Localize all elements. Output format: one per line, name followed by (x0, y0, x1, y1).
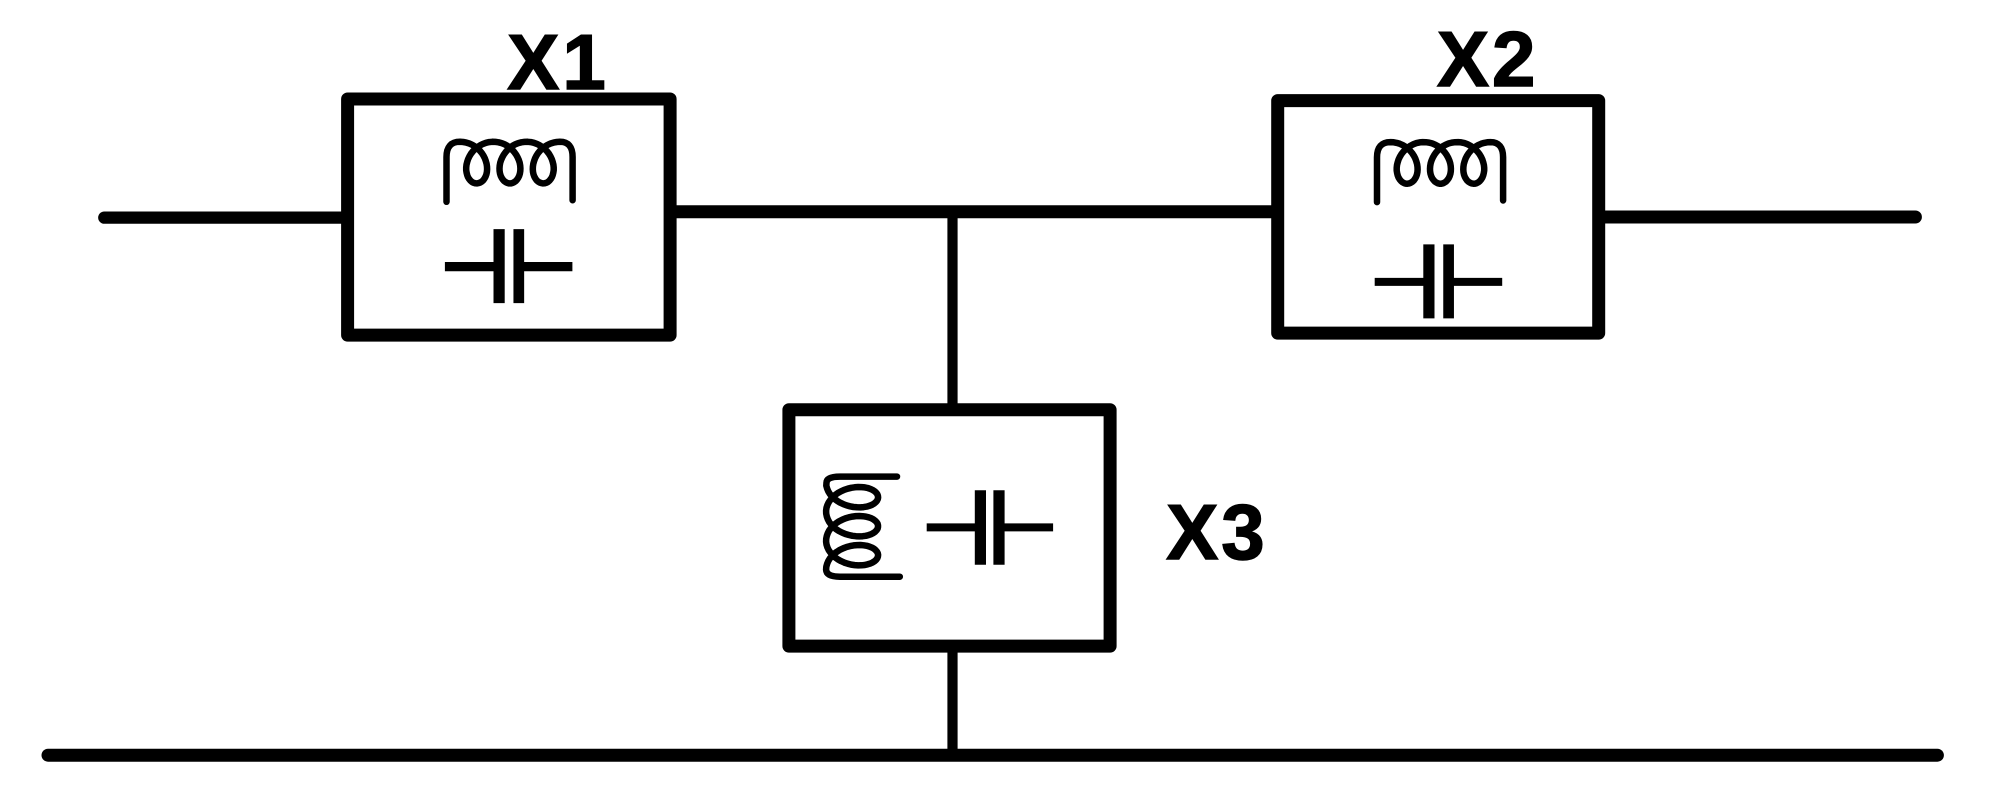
svg-text:X2: X2 (1437, 15, 1538, 103)
wire: top bus between X1 and X2 (670, 205, 1280, 218)
resonator block X2 (box) (1278, 101, 1599, 334)
capacitor inside X1 (445, 229, 573, 303)
inductor inside X1 (447, 142, 573, 202)
wire: right output stub (1600, 211, 1915, 224)
wire: bottom ground bus (48, 749, 1937, 762)
capacitor inside X2 (1375, 244, 1503, 318)
svg-text:X1: X1 (507, 18, 608, 106)
wire: vertical drop from top bus junction to X3 (947, 208, 957, 410)
resonator block X1 (box) (348, 99, 670, 335)
capacitor inside X3 (927, 490, 1053, 565)
wire: vertical from X3 bottom to ground bus (947, 645, 957, 755)
svg-text:X3: X3 (1166, 488, 1267, 576)
wire: left input stub (104, 211, 345, 223)
resonator block X3 (box) (789, 410, 1110, 646)
inductor inside X2 (1377, 142, 1503, 202)
inductor inside X3 (vertical) (826, 477, 900, 577)
